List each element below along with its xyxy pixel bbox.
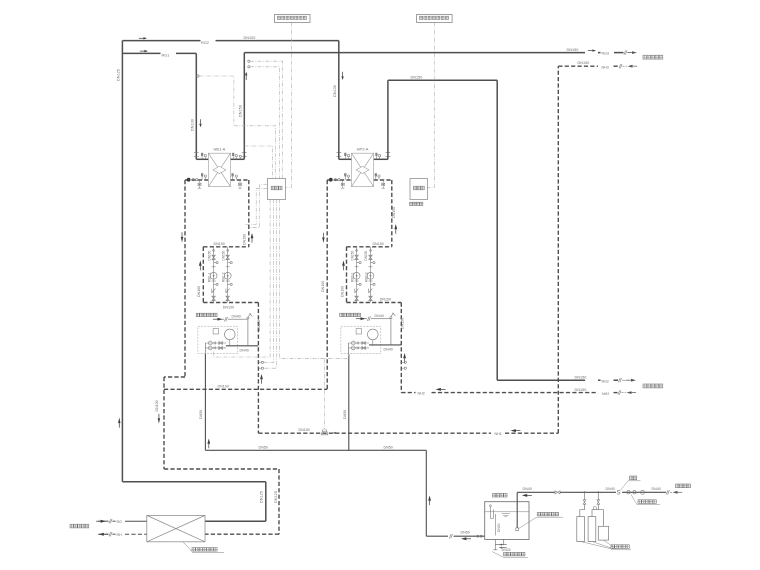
svg-text:DN100: DN100 [244,36,256,40]
flow arrow up dashed drop [260,374,263,384]
svg-text:RG2: RG2 [201,41,209,45]
flow arrow left on NH1 [511,429,521,432]
arrow NG2 exit [626,379,636,382]
pipe break DN40 left [224,317,227,321]
underline low level valve label [537,516,564,518]
pipe stub HB1-A hot outlet [231,158,245,160]
leader brine tank [603,540,616,549]
underline shuibiao label [628,480,641,482]
pipe RG2 DN100 top header (right part) [216,40,339,42]
label kongtiao-jiankong box1 [278,16,307,19]
pipe RG from municipal (stub) [98,520,108,522]
label daoliufangzhiqi [638,500,656,504]
svg-text:DN150: DN150 [380,298,391,302]
tail NH3 arrow [633,65,637,67]
pipe break NH3 [619,64,622,68]
overflow U-tube inside tank [490,505,494,519]
svg-text:DN40: DN40 [652,487,661,491]
motorized valve on NH1 [321,429,328,435]
svg-text:DN50: DN50 [384,445,393,449]
control line to NH1 valve actuator [324,359,326,429]
arrow NG3 exit [627,51,637,54]
label peidianxiang under cabinet 2 [410,202,423,205]
motorized valve (solid) on HB1-A cold stub [187,178,191,182]
label shuibiao (water meter) [630,476,637,480]
pipe dashed drop to NH1 [257,303,259,434]
gauge on right return drop a [404,361,406,363]
BAS box 1 (air-conditioning monitoring) [275,15,311,23]
flow arrow up beside NG3 riser [245,72,247,80]
leader integrated unit label [183,542,192,552]
signal line from BAS box 2 to control cabinet 2 [428,22,435,187]
softened water tank [485,502,529,540]
flow arrow up beside dashed edge [251,233,254,243]
pipe dashed NH1 to riser [505,432,558,434]
pipe break RH [109,532,112,536]
softener resin tank 2 [588,517,596,542]
svg-text:NH2: NH2 [418,392,425,396]
tail city water arrow [678,491,682,493]
pipe RG1 (left part) [122,52,160,54]
label ruanhua-shuixiang [493,493,508,497]
control line NG3 sensor 1 [250,61,283,178]
pipe RG2 DN100 top header (left part) [122,40,200,42]
float valve left unit [244,313,253,321]
pipe RG into unit [125,520,147,522]
pipe break RG [109,519,112,523]
svg-text:DN100: DN100 [218,384,229,388]
pipe dashed DN100 cross return [164,388,327,390]
svg-text:DN150: DN150 [578,61,590,65]
svg-text:DN150: DN150 [223,306,234,310]
svg-text:DN100: DN100 [197,286,201,297]
make-up water pressurization unit left [198,326,238,353]
underline drain label [504,556,529,558]
sensor on NG3 riser upper [248,60,250,62]
svg-text:DN150: DN150 [350,250,354,260]
pipe suction from tank [516,492,518,528]
valve dosing branch 1 [583,500,586,504]
flow arrow up NH2 drop [403,353,406,363]
small pump dosing [593,507,596,510]
gauge stub b [258,367,261,369]
svg-text:DN40: DN40 [606,487,615,491]
svg-text:RB2-2: RB2-2 [364,272,368,282]
flange ticks on riser x=338.8 [336,153,341,157]
svg-text:DN150: DN150 [575,375,587,379]
svg-text:DN150: DN150 [239,105,243,117]
flange dot tank inlet [477,535,479,537]
pipe dashed NH2 seg1 [401,392,415,394]
svg-text:DN50: DN50 [199,410,203,419]
svg-text:DN150: DN150 [392,207,396,218]
pipe DN50 feed right unit [348,354,350,450]
flange dot tank inlet 2 [480,535,482,537]
control line sensor RG1 riser to cabinet [199,76,276,179]
pipe DN40 make-up outlet right [369,344,401,346]
arrow city water entry [673,491,683,494]
svg-text:DN125: DN125 [117,69,121,81]
svg-text:DN100: DN100 [333,85,337,97]
pipe RG1 (right part) [176,52,196,54]
pipe dashed pump top header right unit [347,246,392,248]
pipe NG3 DN150 (main) [244,52,585,54]
small tank in make-up unit [213,329,218,334]
flange ticks on riser x=244.3 [242,153,247,157]
flow arrow on RG2 [139,37,147,39]
flange circle HP2-A cold stub 1 [334,179,336,181]
small arrow at NH1 valve [331,432,338,434]
svg-text:DN150: DN150 [567,48,579,52]
pipe DN50 to tank (left seg) [426,535,448,537]
svg-text:RB1-1: RB1-1 [207,272,211,282]
underline integrated unit label [192,552,224,554]
pipe DN40 from city water [622,491,666,493]
flow arrow DN40 left [213,318,223,321]
gauge on left return drop a [261,361,263,363]
pipe break DN50 tank inlet [449,534,452,538]
signal line from BAS box 1 to control cabinet 1 [286,22,292,187]
label diankonggui 2 [413,186,424,190]
flow arrow DN40 right [356,317,366,320]
pressure sensor on RG1 riser [197,75,199,77]
pipe dashed HB1-A cold stub left [185,179,208,181]
flow arrow toward tank text side [461,537,471,540]
pipe break NG3 [624,50,627,54]
pipe dashed right unit return edge [326,180,328,389]
flow arrow into tank [522,494,532,497]
svg-text:DN150: DN150 [257,320,261,331]
thermometer and gauge HP2-A cold side left [345,174,350,180]
drain valve HP2-A cold left [341,180,344,188]
svg-text:DN40: DN40 [232,314,241,318]
pipe NG2 DN150 (main) [497,379,585,381]
pipe DN40 fill line middle [560,491,616,493]
pressure tank stem [229,340,231,346]
svg-text:DN40: DN40 [523,487,532,491]
arrow NH3 entry [628,65,638,68]
svg-text:DN125: DN125 [274,491,278,503]
label jie-shizheng-rewang bottom left [70,524,89,528]
svg-text:DN150: DN150 [214,242,225,246]
pipe bottom supply horizontal [122,481,265,483]
svg-text:RB2-1: RB2-1 [350,272,354,282]
label kongtiao-jiankong box2 [420,16,449,19]
pipe DN50 horizontal make-up main [205,449,426,451]
thermometer and gauge HP2-A hot inlet [345,153,350,159]
flow arrow down beside HP2-A riser [341,72,343,80]
flow arrow up right supply edge [394,224,397,234]
pipe stub HB1-A hot inlet [196,158,208,160]
drain arrow 2 [499,547,507,549]
flow arrow up right subloop [342,261,345,271]
underline daoliu label [637,504,660,506]
flange ticks on riser x=387.9 [386,153,391,157]
svg-text:DN150: DN150 [299,428,310,432]
control line HB1-A to cabinet [244,146,272,179]
pipe dashed NH2 main [432,392,599,394]
drain end tick [493,549,497,551]
pipe into integrated unit right side [205,520,266,522]
pipe dashed right unit supply edge [391,180,393,247]
thermometer and gauge HB1-A cold side right [232,174,238,180]
tank internal drop pipe DN50 [494,514,496,536]
pipe dashed HP2-A cold stub right [374,179,392,181]
pipe riser DN150 from HB1-A hot outlet [243,53,245,160]
pipe dashed HB1-A cold stub right [231,179,249,181]
pipe NG3 continuation thin [628,52,632,54]
pipe dashed NH1 main [258,432,491,434]
motorized valve (solid) on HP2-A cold stub [329,178,333,182]
label dingyabushui-zhuangzhi right [340,313,361,316]
pipe dashed pump bottom header left unit [203,302,258,304]
label diankonggui 1 [271,186,282,190]
flow arrow up DN50 riser [428,496,431,506]
svg-text:DN50: DN50 [259,445,268,449]
pipe RH into unit [125,533,147,535]
control line to gauge b [264,199,277,368]
pipe NG3 to break [614,52,624,54]
pipe dashed NH3 to break [614,65,619,67]
valve on DN40 fill line [555,491,560,494]
pressure tank stem [372,340,374,346]
pump RB2-2 branch [367,247,375,303]
control cabinet 2 (dian kong gui) [410,179,428,200]
flow arrow on RG1 [140,50,148,52]
heat exchanger HP2-A [352,153,374,186]
svg-text:RB1-2: RB1-2 [222,272,226,282]
label ruanshui-chuliqi [611,545,629,549]
flow arrow up DN50 left [207,439,210,449]
flange ticks on riser x=196.3 [194,153,199,157]
control line NG3 sensor 2 [250,67,280,179]
strainer on city water line [641,490,645,494]
flange circle HB1-A cold stub 2 [196,179,198,181]
flow arrow up left main riser [118,418,120,428]
pipe dashed bottom return horizontal [164,468,279,470]
svg-text:DN150: DN150 [243,234,247,245]
pipe dashed pump subloop left edge [202,247,204,303]
leader softener 1 [581,542,611,549]
pipe DN50 into tank [454,535,485,537]
svg-text:DN40: DN40 [375,314,384,318]
svg-text:RH: RH [117,533,123,537]
pipe break city water [666,490,669,494]
svg-text:DN100: DN100 [191,119,195,131]
flow arrow down right unit return [322,233,324,243]
pressure tank in make-up unit [225,329,236,340]
svg-text:NH2: NH2 [602,392,609,396]
thermometer and gauge HP2-A hot outlet [376,153,381,159]
pipe dashed pump subloop right edge [346,247,348,303]
pipe riser DN150 from HP2-A hot outlet [387,80,389,159]
pipe RH seg [113,533,116,535]
label jie-jifang-paishuigou [504,552,525,556]
leader shuibiao [621,481,629,490]
pump RB1-1 branch [210,247,218,303]
pipe riser DN125 left main supply [121,41,123,482]
dosing branch 2 [592,492,604,526]
pipe riser DN100 to HP2-A hot inlet [338,41,340,160]
control line cabinet1 left upper [250,185,268,228]
pipe NG3 segment [598,52,601,54]
flow arrow down dashed drop [158,414,160,424]
svg-text:HP2-A: HP2-A [357,147,369,152]
BAS box 2 (air-conditioning monitoring) [417,15,453,23]
svg-text:DN150: DN150 [364,250,368,260]
pipe DN40 make-up outlet left [226,345,258,347]
flange circle HP2-A cold stub 2 [338,179,340,181]
svg-text:DN150: DN150 [400,318,404,329]
sensor on NG3 riser lower [248,66,250,68]
pipe DN40 fill line left [217,318,225,320]
label dingyabushui-zhuangzhi left [196,313,217,316]
pipe DN40 fill line right [360,318,368,320]
svg-text:DN150: DN150 [207,250,211,260]
water level symbol [502,514,511,517]
svg-text:DN150: DN150 [373,242,384,246]
label jie-shizheng-guanwang middle right [643,384,663,388]
float valve right unit [387,313,396,321]
svg-text:DN32: DN32 [502,548,511,552]
arrow NH2 entry [627,391,637,394]
svg-text:NH3: NH3 [602,65,609,69]
thermometer and gauge HB1-A hot inlet [201,153,206,159]
flow arrow left on NH2 [436,388,446,391]
pipe dashed into integrated unit [205,533,279,535]
brine tank [598,526,608,540]
drain valve HB1-A cold left [198,180,201,188]
svg-text:DN40: DN40 [384,348,393,352]
pipe dashed pump top header left unit [203,246,249,248]
flow arrow on NG3 [588,49,596,51]
svg-text:DN150: DN150 [575,388,587,392]
drain arrow 1 [499,544,507,546]
integrated heat exchange unit box [147,515,205,541]
pipe dashed NH2 to break [614,392,618,394]
pipe stub HP2-A hot inlet [339,158,352,160]
gauge stub right b [401,367,404,369]
drain tail [494,548,496,550]
pipe dashed pump bottom header right unit [347,302,402,304]
pipe riser DN100 to HB1-A hot inlet [195,53,197,159]
flow arrow RG [96,520,106,523]
underline softener label [611,549,631,551]
flow arrow down beside HB1-A riser [199,119,201,127]
thermometer and gauge HP2-A cold side right [375,174,380,180]
pipe NG2 to break [614,379,619,381]
control line to gauge a [264,199,274,362]
pipe dashed drop to NH2 [400,303,402,393]
leader low level valve label [519,517,537,528]
pressure tank in make-up unit [368,329,379,340]
svg-text:DN100: DN100 [340,286,344,297]
thermometer and gauge HB1-A cold side left [201,174,206,180]
pipe break NG2 [618,378,621,382]
pipe DN40 fill line left b [228,318,244,320]
pipe break NH2 [618,390,621,394]
svg-text:DN100: DN100 [155,400,159,411]
pipe DN125 drop to integrated unit [265,482,267,521]
control line cabinet1 left lower [244,188,267,224]
pipe RH from municipal (stub) [98,533,108,535]
flow arrow up subloop [199,261,202,271]
svg-text:DN40: DN40 [240,348,249,352]
pipe RG seg [113,520,116,522]
label diweishui-kongzhifa [537,512,558,516]
svg-text:DN125: DN125 [259,491,263,503]
svg-text:NG2: NG2 [602,379,609,383]
small tank in make-up unit [356,329,361,334]
svg-text:DN50: DN50 [497,523,501,532]
thermometer and gauge HB1-A hot outlet [232,153,237,159]
label jie-zilaishui [676,484,691,488]
pipe dashed left unit supply edge [248,180,250,247]
flow arrow down left unit return edge [181,232,183,242]
pump RB2-1 branch [353,247,361,303]
pipe dashed HP2-A cold stub left [327,179,351,181]
pipe riser down right loop [496,80,498,380]
pump RB1-2 branch [224,247,232,303]
city water stub [670,491,672,493]
svg-text:HB1-A: HB1-A [214,147,226,152]
heat exchanger HB1-A [208,153,230,186]
make-up water pressurization unit right [341,326,381,353]
stub extra gauge [239,157,241,159]
pipe float valve drop left [247,322,249,346]
pipe dashed DN100 drop [163,377,165,469]
tank drain piping DN32 [495,539,503,547]
dosing branch 1 [580,492,585,516]
softener resin tank 1 [577,517,585,542]
pipe float valve drop right [390,321,392,345]
svg-text:RG: RG [117,520,123,524]
pipe DN40 fill line right b [371,318,387,320]
extra gauge HB1-A hot outlet [239,155,241,157]
svg-text:RG1: RG1 [162,54,170,58]
flow arrow RH [99,533,109,536]
tank water line [485,511,529,513]
svg-text:DN150: DN150 [221,250,225,260]
pipe DN50 feed left unit [204,354,206,450]
gauge stub right a [401,361,404,363]
drain valve HP2-A cold right [382,180,385,188]
pipe NH3 continuation thin [623,65,628,67]
pipe dashed left unit return edge [184,180,186,377]
gauge stub a [258,361,261,363]
control cabinet 1 (dian kong gui) [267,179,285,200]
svg-text:NH1: NH1 [495,432,502,436]
leader daoliu [631,495,637,505]
svg-text:DN150: DN150 [411,75,423,79]
svg-text:DN100: DN100 [321,281,325,292]
gauge on left return drop b [261,367,263,369]
pipe DN50 drop to tank [425,450,427,536]
svg-text:NG3: NG3 [602,52,609,56]
pipe dashed NH3 (main) [558,65,598,67]
pipe NG2 continuation thin [622,379,629,381]
tail NH2 arrow [632,392,636,394]
pipe NH2 continuation thin [622,392,627,394]
pipe break DN40 right [367,317,370,321]
leader softener 2 [592,542,614,549]
pipe dashed jog [164,376,185,378]
pipe dashed NH riser to top [557,66,559,433]
foot valve in tank [516,528,519,531]
pipe DN40 tank fill (left segment) [517,491,555,493]
flange circle HB1-A cold stub 1 [192,179,194,181]
pipe NG2 segment [598,379,601,381]
